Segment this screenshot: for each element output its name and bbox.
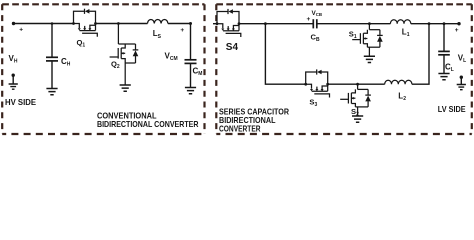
node L2 return: [428, 22, 431, 25]
ground VL: [457, 85, 466, 90]
ground CH: [46, 89, 57, 95]
transistor Q2 (MOSFET with body diode): [110, 24, 139, 85]
wire rail Ls to VCM corner: [168, 23, 191, 25]
node S1 tap: [368, 22, 371, 25]
wire rail L1 to VL: [411, 23, 459, 25]
dashed border box: series capacitor converter: [216, 4, 471, 134]
node VL+ terminal: [457, 22, 460, 25]
node VH- terminal: [12, 74, 15, 77]
svg-text:CB: CB: [311, 33, 320, 44]
svg-text:LV SIDE: LV SIDE: [438, 104, 466, 114]
capacitor CH: [46, 24, 58, 89]
node VCM corner: [189, 22, 192, 25]
svg-text:+: +: [307, 16, 311, 23]
capacitor CB (series): [313, 19, 317, 28]
wire VL- stem: [460, 77, 462, 84]
ground S2: [352, 116, 363, 122]
svg-text:CH: CH: [61, 57, 71, 68]
svg-text:CONVERTER: CONVERTER: [219, 124, 261, 133]
svg-text:S3: S3: [309, 97, 317, 108]
ground CM: [185, 88, 196, 94]
svg-text:VCM: VCM: [165, 52, 178, 63]
svg-text:BIDIRECTIONAL CONVERTER: BIDIRECTIONAL CONVERTER: [97, 120, 199, 129]
svg-text:L1: L1: [402, 28, 410, 39]
svg-text:VH: VH: [9, 54, 18, 65]
ground Q2: [120, 85, 131, 91]
svg-text:+: +: [455, 27, 459, 34]
wire VH- stem: [12, 75, 14, 84]
inductor Ls: [148, 20, 168, 24]
svg-text:Q2: Q2: [111, 60, 120, 71]
wire rail S4 to CB: [240, 23, 314, 25]
node CH tap: [51, 22, 54, 25]
svg-text:LS: LS: [153, 29, 162, 40]
wire S3 to S2 node: [329, 83, 358, 85]
svg-text:S4: S4: [226, 42, 239, 53]
svg-text:VCB: VCB: [312, 10, 323, 17]
ground S1: [364, 56, 375, 62]
node CL tap: [443, 22, 446, 25]
dashed border box: conventional converter: [2, 4, 204, 134]
transistor S4 (MOSFET with body diode): [216, 9, 241, 37]
node S2 tap: [356, 83, 359, 86]
wire rail CB to L1: [317, 23, 391, 25]
wire rail input stub: [213, 23, 217, 25]
transistor Q1 (MOSFET with body diode): [72, 9, 97, 37]
svg-text:+: +: [19, 27, 23, 34]
capacitor CM: [185, 24, 197, 88]
node VL- terminal: [460, 76, 463, 79]
wire S2 node to L2: [358, 83, 385, 85]
ground VH: [9, 84, 18, 89]
wire rail Q1 to Ls: [96, 23, 148, 25]
inductor L1: [390, 20, 410, 24]
node VH+ terminal dot: [12, 22, 15, 25]
inductor L2: [385, 80, 412, 84]
svg-text:HV SIDE: HV SIDE: [5, 97, 36, 107]
svg-text:CL: CL: [445, 62, 454, 73]
svg-text:CM: CM: [193, 66, 203, 77]
transistor S1 (MOSFET with body diode): [352, 24, 383, 56]
transistor S3 (MOSFET with body diode): [304, 69, 329, 97]
svg-text:+: +: [180, 27, 184, 34]
transistor S2 (MOSFET with body diode): [340, 84, 371, 115]
node series tap: [264, 22, 267, 25]
ground CL: [438, 74, 449, 80]
svg-text:L2: L2: [398, 91, 406, 102]
capacitor CL: [438, 24, 450, 73]
wire L2 up to rail: [412, 24, 429, 84]
wire series tap down: [265, 24, 305, 84]
wire top rail left segment: [14, 23, 74, 25]
svg-text:Q1: Q1: [77, 38, 86, 49]
svg-text:S1: S1: [349, 30, 357, 41]
svg-text:VL: VL: [458, 53, 466, 64]
node switch node: [117, 22, 120, 25]
